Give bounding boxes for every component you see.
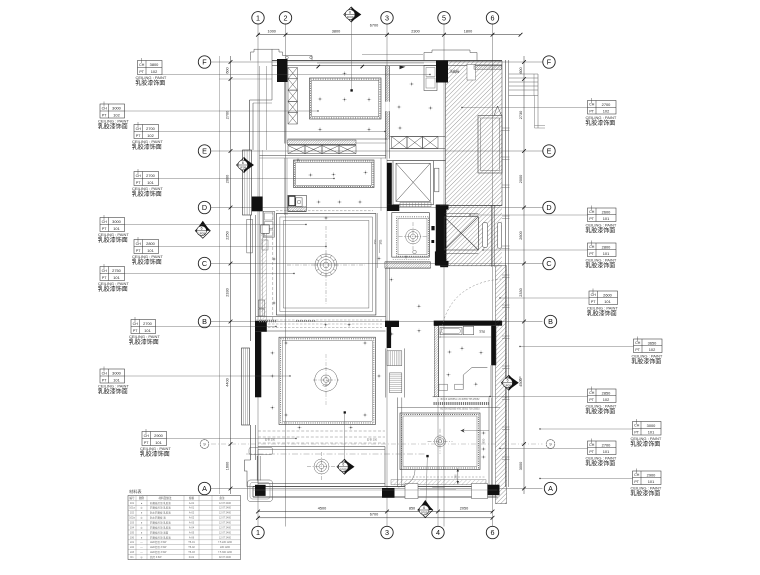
svg-text:3: 3 [385,528,389,537]
svg-text:LED灯带 3.5W: LED灯带 3.5W [150,540,167,544]
svg-text:6: 6 [491,13,495,22]
svg-text:2Q7P: 2Q7P [452,70,459,74]
svg-text:PT: PT [634,480,639,484]
svg-text:101: 101 [604,299,611,304]
svg-text:E: E [202,147,207,156]
svg-text:101: 101 [147,248,154,253]
svg-text:LED灯带 3.5W: LED灯带 3.5W [150,545,167,549]
svg-text:6: 6 [423,506,425,510]
svg-text:CH: CH [144,434,150,438]
svg-text:12 07 2400: 12 07 2400 [219,522,232,525]
svg-text:乳胶漆饰面: 乳胶漆饰面 [135,79,165,87]
svg-text:CH: CH [591,293,597,297]
svg-text:CEILING : PAINT: CEILING : PAINT [98,281,129,286]
svg-text:PT: PT [591,300,596,304]
svg-text:CEILING : PAINT: CEILING : PAINT [586,223,617,228]
svg-text:PT: PT [102,113,107,117]
svg-text:CH: CH [136,242,142,246]
svg-text:PT: PT [136,134,141,138]
svg-text:备注: 备注 [219,496,225,500]
svg-text:103: 103 [130,522,135,525]
svg-text:乳胶漆饰面: 乳胶漆饰面 [98,236,128,244]
svg-text:材料及做法: 材料及做法 [159,496,172,500]
svg-text:101: 101 [603,251,610,256]
svg-text:灯带 250: 灯带 250 [367,438,378,442]
svg-text:乳胶漆饰面: 乳胶漆饰面 [132,190,162,198]
svg-text:B: B [202,317,207,326]
svg-text:筒灯 3.5W: 筒灯 3.5W [150,555,162,559]
svg-text:CH: CH [136,127,142,131]
svg-text:1F09: 1F09 [504,383,511,387]
svg-text:1800: 1800 [464,29,472,33]
svg-text:CH: CH [589,443,595,447]
svg-text:2700: 2700 [146,126,155,131]
svg-text:图例: 图例 [139,496,145,500]
svg-text:7.5 220 1200: 7.5 220 1200 [218,541,233,544]
svg-text:石膏板吊顶 乳胶漆: 石膏板吊顶 乳胶漆 [150,506,171,510]
svg-text:乳胶漆饰面: 乳胶漆饰面 [585,119,615,127]
svg-text:CEILING : PAINT: CEILING : PAINT [136,75,167,80]
svg-text:C: C [546,259,551,268]
svg-text:4400: 4400 [225,378,229,386]
svg-text:1600: 1600 [225,462,229,470]
svg-text:CEILING : PAINT: CEILING : PAINT [98,119,129,124]
svg-text:A-05: A-05 [189,531,195,534]
svg-text:石膏板吊顶 乳胶漆: 石膏板吊顶 乳胶漆 [150,525,171,529]
svg-text:CH: CH [635,341,641,345]
svg-text:石膏板吊顶 漆面: 石膏板吊顶 漆面 [150,530,169,534]
svg-text:450: 450 [518,376,522,381]
svg-text:101: 101 [147,180,154,185]
svg-text:L01: L01 [130,541,135,544]
svg-text:CEILING : PAINT: CEILING : PAINT [586,115,617,120]
svg-text:101a: 101a [129,507,135,510]
svg-text:106: 106 [130,536,135,539]
svg-text:2: 2 [284,13,288,22]
svg-text:A-06: A-06 [189,536,195,539]
svg-text:2330: 2330 [519,288,523,296]
svg-text:102a: 102a [129,517,135,520]
svg-text:2800: 2800 [602,244,611,249]
svg-text:6: 6 [491,528,495,537]
svg-text:PT: PT [589,398,594,402]
svg-text:乳胶漆饰面: 乳胶漆饰面 [630,490,660,498]
svg-text:102: 102 [130,512,135,515]
svg-text:2700: 2700 [143,321,152,326]
svg-text:A-02: A-02 [189,517,195,520]
svg-text:B: B [548,317,553,326]
svg-text:2000: 2000 [519,175,523,183]
svg-text:101: 101 [648,479,655,484]
svg-text:乳胶漆饰面: 乳胶漆饰面 [98,388,128,396]
svg-text:4: 4 [436,528,440,537]
svg-text:1F09: 1F09 [239,166,246,170]
svg-text:12 07 2400: 12 07 2400 [219,512,232,515]
svg-text:A: A [202,484,207,493]
svg-text:乳胶漆饰面: 乳胶漆饰面 [585,227,615,235]
svg-text:2900: 2900 [647,472,656,477]
svg-text:7.5 300 1200: 7.5 300 1200 [218,551,233,554]
svg-text:CH: CH [139,63,145,67]
svg-text:防水石膏板 乳胶漆: 防水石膏板 乳胶漆 [150,511,171,515]
svg-text:乳胶漆饰面: 乳胶漆饰面 [585,408,615,416]
svg-text:101: 101 [648,430,655,435]
svg-text:PT: PT [133,329,138,333]
svg-text:E: E [547,147,552,156]
svg-text:BV4 B 2285554.1 B 30555 T55 25: BV4 B 2285554.1 B 30555 T55 25552 [441,399,481,401]
svg-text:1F09: 1F09 [340,467,347,471]
svg-text:6: 6 [507,379,509,383]
svg-text:CEILING : PAINT: CEILING : PAINT [632,354,663,359]
svg-text:104: 104 [130,526,135,529]
svg-text:CEILING : PAINT: CEILING : PAINT [129,334,160,339]
svg-text:102: 102 [147,133,154,138]
svg-text:1: 1 [256,13,260,22]
svg-text:CH: CH [102,220,108,224]
svg-text:1F09: 1F09 [198,231,205,235]
svg-text:PT: PT [589,109,594,113]
svg-text:CEILING : PAINT: CEILING : PAINT [132,139,163,144]
svg-text:220 1200: 220 1200 [220,546,231,549]
svg-text:A: A [548,484,553,493]
svg-text:3000: 3000 [112,105,121,110]
svg-text:LED灯带 3.5W: LED灯带 3.5W [150,550,167,554]
svg-text:CH: CH [136,174,142,178]
svg-text:乳胶漆饰面: 乳胶漆饰面 [98,123,128,131]
svg-text:2600: 2600 [519,231,523,239]
svg-text:防水石膏板 漆: 防水石膏板 漆 [150,516,166,520]
svg-text:L03: L03 [130,551,135,554]
svg-text:乳胶漆饰面: 乳胶漆饰面 [132,258,162,266]
svg-text:102: 102 [603,109,610,114]
svg-text:101: 101 [603,216,610,221]
svg-text:3000: 3000 [519,462,523,470]
svg-text:2700: 2700 [602,442,611,447]
svg-text:烹骎: 烹骎 [479,329,485,334]
svg-text:D: D [546,203,551,212]
svg-text:PT: PT [139,70,144,74]
svg-text:3800: 3800 [332,29,340,33]
svg-text:101: 101 [113,275,120,280]
svg-text:乳胶漆饰面: 乳胶漆饰面 [631,358,661,366]
svg-text:3: 3 [385,13,389,22]
svg-text:2900: 2900 [154,433,163,438]
svg-text:92 07 2400: 92 07 2400 [219,556,232,559]
svg-text:C: C [202,259,207,268]
svg-text:PT: PT [144,441,149,445]
svg-text:PT: PT [634,430,639,434]
svg-text:灯带 250: 灯带 250 [265,438,276,442]
svg-text:PT: PT [136,249,141,253]
svg-text:B1 T50 B25555 V50 25552 T30 25: B1 T50 B25555 V50 25552 T30 25552 [440,408,480,410]
svg-text:12 07 2400: 12 07 2400 [219,526,232,529]
svg-text:850: 850 [409,506,415,510]
svg-text:6: 6 [242,161,244,165]
svg-text:2000: 2000 [225,175,229,183]
svg-text:T5-02: T5-02 [188,546,195,549]
svg-text:石膏板吊顶 乳胶漆: 石膏板吊顶 乳胶漆 [150,521,171,525]
svg-text:6700: 6700 [370,23,378,27]
svg-text:2330: 2330 [225,288,229,296]
svg-text:乳胶漆饰面: 乳胶漆饰面 [129,338,159,346]
svg-text:12 07 2400: 12 07 2400 [219,502,232,505]
svg-text:4500: 4500 [318,506,326,510]
svg-text:PT: PT [589,450,594,454]
svg-text:CEILING : PAINT: CEILING : PAINT [140,446,171,451]
svg-text:乳胶漆饰面: 乳胶漆饰面 [585,262,615,270]
svg-text:CH: CH [133,322,139,326]
svg-text:CH: CH [102,269,108,273]
svg-text:F: F [547,58,552,67]
svg-text:PT: PT [102,378,107,382]
svg-text:600: 600 [519,67,523,73]
svg-text:1F09: 1F09 [347,15,354,19]
svg-text:6: 6 [342,463,344,467]
svg-text:3000: 3000 [647,423,656,428]
svg-text:编号: 编号 [129,496,135,500]
svg-text:CEILING : PAINT: CEILING : PAINT [132,186,163,191]
svg-text:101: 101 [603,449,610,454]
svg-text:L02: L02 [130,546,135,549]
svg-text:102: 102 [649,347,656,352]
svg-text:乳胶漆饰面: 乳胶漆饰面 [140,450,170,458]
svg-text:T5-01: T5-01 [188,541,195,544]
svg-text:102: 102 [603,397,610,402]
svg-text:6: 6 [349,10,351,14]
svg-text:石膏板吊顶 乳胶漆: 石膏板吊顶 乳胶漆 [150,501,171,505]
svg-text:1000: 1000 [267,29,275,33]
svg-text:2600: 2600 [603,292,612,297]
svg-text:A-01: A-01 [189,502,195,505]
svg-text:A-02: A-02 [189,512,195,515]
svg-text:6700: 6700 [370,513,378,517]
svg-text:石膏板吊顶 乳胶漆: 石膏板吊顶 乳胶漆 [150,535,171,539]
svg-text:102: 102 [151,69,158,74]
svg-text:PT: PT [136,181,141,185]
svg-text:A-04: A-04 [189,526,195,529]
svg-text:102: 102 [113,112,120,117]
svg-text:CH: CH [634,424,640,428]
svg-text:250: 250 [455,474,458,479]
svg-text:CEILING : PAINT: CEILING : PAINT [98,232,129,237]
svg-text:2250: 2250 [225,231,229,239]
svg-text:2700: 2700 [146,173,155,178]
svg-text:101: 101 [144,328,151,333]
svg-text:CH: CH [634,473,640,477]
svg-text:CH: CH [589,103,595,107]
svg-text:D-01: D-01 [189,556,195,559]
svg-text:12 07 2400: 12 07 2400 [219,531,232,534]
svg-text:5: 5 [442,13,446,22]
svg-text:CH: CH [102,106,108,110]
svg-text:乳胶漆饰面: 乳胶漆饰面 [587,310,617,318]
svg-text:101: 101 [113,377,120,382]
svg-text:PT: PT [589,252,594,256]
svg-text:1F09: 1F09 [421,511,428,515]
svg-text:12 07 2400: 12 07 2400 [219,536,232,539]
svg-text:CEILING : PAINT: CEILING : PAINT [587,306,618,311]
svg-text:CH: CH [589,245,595,249]
svg-text:PT: PT [635,348,640,352]
svg-text:CEILING : PAINT: CEILING : PAINT [132,254,163,259]
svg-text:2800: 2800 [146,241,155,246]
svg-text:250: 250 [373,239,377,244]
svg-text:950: 950 [482,438,486,443]
svg-text:101: 101 [155,440,162,445]
svg-text:2050: 2050 [460,506,468,510]
svg-text:CEILING : PAINT: CEILING : PAINT [586,258,617,263]
svg-text:材料表: 材料表 [129,488,142,495]
svg-text:2850: 2850 [602,390,611,395]
svg-text:101: 101 [113,226,120,231]
svg-text:6: 6 [201,227,203,231]
svg-text:乳胶漆饰面: 乳胶漆饰面 [585,460,615,468]
svg-text:2700: 2700 [225,111,229,119]
svg-text:乳胶漆饰面: 乳胶漆饰面 [98,285,128,293]
svg-text:101: 101 [130,502,135,505]
svg-text:CEILING : PAINT: CEILING : PAINT [586,404,617,409]
svg-text:CH: CH [589,210,595,214]
svg-text:12 07 2400: 12 07 2400 [219,507,232,510]
svg-text:105: 105 [130,531,135,534]
svg-text:PT: PT [102,227,107,231]
svg-text:2700: 2700 [602,102,611,107]
svg-text:A-01: A-01 [189,507,195,510]
svg-text:CH: CH [589,391,595,395]
svg-text:CH: CH [102,371,108,375]
svg-text:CEILING : PAINT: CEILING : PAINT [98,384,129,389]
svg-text:12 07 2400: 12 07 2400 [219,517,232,520]
svg-text:3650: 3650 [648,340,657,345]
svg-text:D: D [202,203,207,212]
svg-text:CEILING : PAINT: CEILING : PAINT [631,486,662,491]
svg-text:PT: PT [589,217,594,221]
svg-text:F: F [202,58,207,67]
svg-text:2730: 2730 [519,111,523,119]
svg-text:1: 1 [256,528,260,537]
svg-text:3000: 3000 [112,219,121,224]
svg-text:CEILING : PAINT: CEILING : PAINT [631,436,662,441]
svg-text:2750: 2750 [112,268,121,273]
svg-text:乳胶漆饰面: 乳胶漆饰面 [630,440,660,448]
svg-text:T5-03: T5-03 [188,551,195,554]
svg-text:乳胶漆饰面: 乳胶漆饰面 [132,143,162,151]
svg-text:规格: 规格 [189,496,195,500]
svg-text:600: 600 [225,67,229,73]
svg-text:2300: 2300 [411,29,419,33]
svg-text:A-03: A-03 [189,522,195,525]
svg-text:3000: 3000 [112,370,121,375]
svg-text:CEILING : PAINT: CEILING : PAINT [586,456,617,461]
svg-text:2600: 2600 [602,209,611,214]
svg-text:PT: PT [102,276,107,280]
svg-text:3800: 3800 [150,62,159,67]
